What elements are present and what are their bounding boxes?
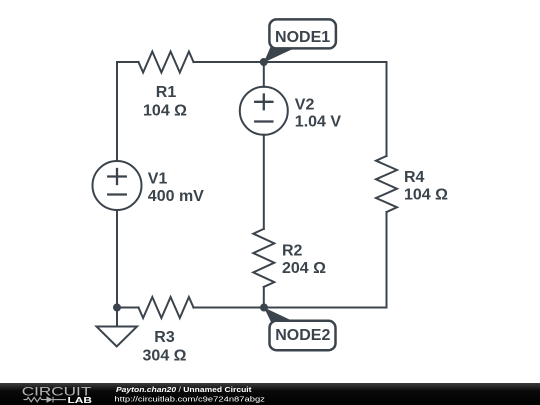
node NODE2 junction dot — [260, 304, 268, 312]
wire left rail upper — [116, 62, 118, 161]
node NODE1 junction dot — [260, 58, 268, 66]
wire right rail upper — [386, 62, 388, 156]
svg-text:104 Ω: 104 Ω — [143, 103, 187, 120]
resistor R1 — [139, 52, 194, 73]
resistor R3 — [139, 297, 194, 318]
voltage source V1 — [93, 161, 142, 210]
logo diode triangle — [47, 396, 53, 402]
wire mid column lower — [263, 287, 265, 308]
wire left rail lower — [116, 210, 118, 308]
node label NODE2 callout tail — [264, 308, 297, 324]
wire mid column middle — [263, 135, 265, 229]
node ground junction dot — [113, 304, 121, 312]
svg-text:1.04 V: 1.04 V — [295, 113, 342, 130]
node label NODE1 box — [269, 19, 336, 48]
svg-text:V2: V2 — [295, 96, 315, 113]
svg-text:NODE2: NODE2 — [275, 327, 330, 344]
resistor R4 — [376, 156, 397, 212]
node label NODE2 box — [270, 321, 336, 350]
svg-text:Payton.chan20 / Unnamed Circui: Payton.chan20 / Unnamed Circuit — [116, 385, 252, 394]
svg-text:304 Ω: 304 Ω — [143, 348, 187, 365]
wire mid column upper — [263, 62, 265, 87]
svg-text:R4: R4 — [404, 169, 425, 186]
wire right rail lower — [386, 212, 388, 308]
ground — [97, 327, 138, 347]
wire top rail — [194, 61, 387, 63]
svg-text:104 Ω: 104 Ω — [404, 187, 448, 204]
svg-text:400 mV: 400 mV — [148, 188, 204, 205]
svg-text:R2: R2 — [282, 242, 303, 259]
svg-text:V1: V1 — [148, 171, 168, 188]
svg-text:LAB: LAB — [68, 395, 93, 405]
wire bottom rail — [194, 307, 387, 309]
svg-text:NODE1: NODE1 — [275, 29, 330, 46]
logo symbol row — [24, 397, 67, 403]
node label NODE1 callout tail — [264, 47, 297, 63]
wire top-left horizontal — [117, 61, 139, 63]
wire bottom-left horizontal — [117, 307, 139, 309]
svg-text:R3: R3 — [154, 329, 175, 346]
svg-text:http://circuitlab.com/c9e724n8: http://circuitlab.com/c9e724n87abgz — [114, 394, 265, 403]
ground stub wire — [116, 308, 118, 327]
svg-text:R1: R1 — [156, 84, 177, 101]
resistor R2 — [253, 229, 274, 287]
svg-text:204 Ω: 204 Ω — [282, 260, 326, 277]
voltage source V2 — [240, 87, 288, 135]
